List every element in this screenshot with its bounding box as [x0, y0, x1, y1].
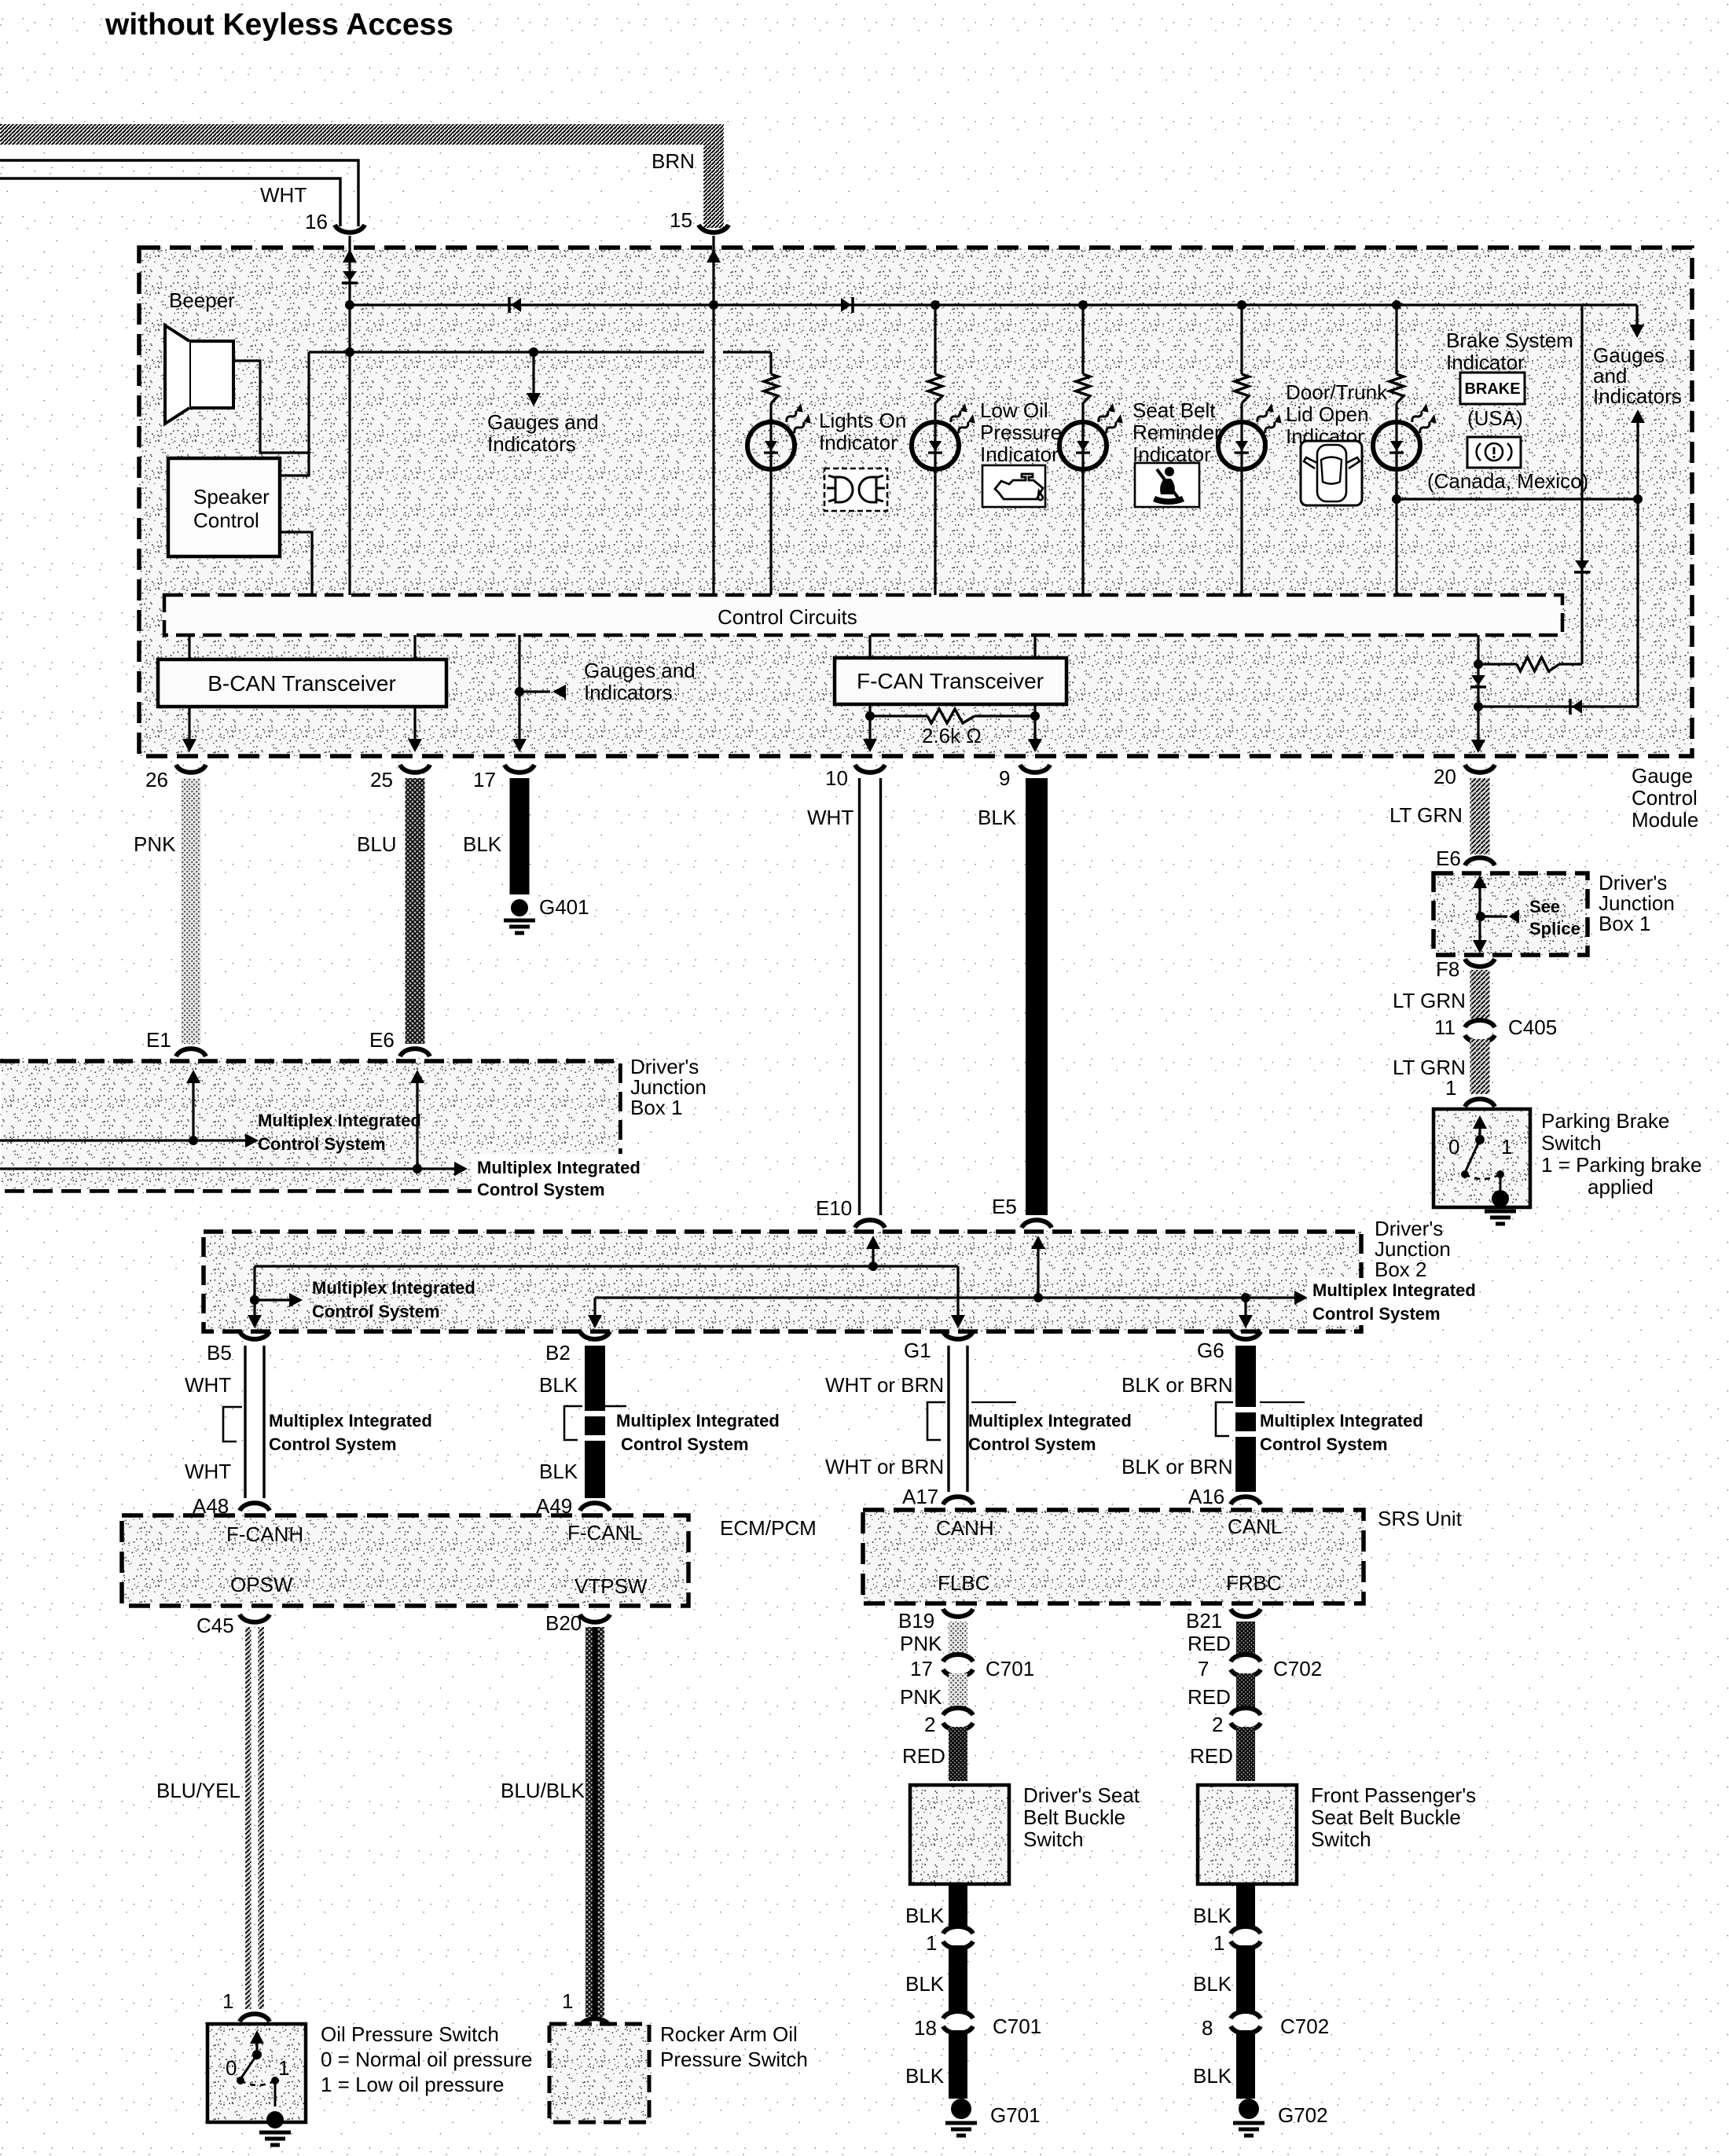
connector rocker arm switch pin 1	[580, 2018, 610, 2026]
junction E1/multiplex1	[189, 1136, 198, 1145]
wire B-CAN out pin 26	[188, 707, 190, 740]
multiplex tap G1	[927, 1402, 945, 1440]
arrow to Gauges and Indicators label	[519, 690, 550, 692]
svg-text:E6: E6	[1436, 847, 1461, 870]
wire PNK B19 to C701	[949, 1622, 967, 1654]
svg-text:BLK: BLK	[905, 1972, 945, 1996]
svg-text:Switch: Switch	[1311, 1827, 1371, 1851]
junction bus1 Low Oil	[931, 300, 940, 310]
connector C702 lower	[1231, 2011, 1261, 2018]
svg-text:BLK: BLK	[905, 1904, 945, 1927]
svg-text:See: See	[1529, 897, 1560, 916]
bus wire 2 (lights-on feed), breaks over BRN wire	[309, 351, 704, 353]
wire BLK or BRN G6 to A16	[1235, 1346, 1256, 1492]
LED Door/Trunk indicator	[1218, 422, 1265, 469]
svg-text:C701: C701	[993, 2015, 1041, 2038]
svg-text:BLK: BLK	[978, 806, 1017, 829]
connector E6 right	[1465, 858, 1495, 865]
svg-text:BLU: BLU	[357, 832, 397, 856]
svg-text:Indicators: Indicators	[487, 432, 576, 456]
switch lever parking brake	[1478, 1126, 1481, 1138]
svg-text:Box 2: Box 2	[1375, 1258, 1427, 1281]
LED Brake indicator	[1373, 422, 1420, 469]
svg-text:applied: applied	[1588, 1175, 1654, 1199]
wire BLK buckle to pin 1	[1236, 1884, 1255, 1926]
svg-text:BLK: BLK	[463, 832, 502, 856]
svg-text:Gauge: Gauge	[1632, 764, 1693, 788]
svg-text:26: 26	[145, 768, 168, 792]
svg-text:18: 18	[914, 2016, 937, 2040]
wire F-CAN stub right	[1033, 635, 1036, 658]
svg-text:1: 1	[926, 1931, 937, 1955]
svg-text:Multiplex Integrated: Multiplex Integrated	[616, 1411, 780, 1431]
svg-text:Pressure: Pressure	[980, 421, 1062, 444]
wire BLK pin9 to E5	[1026, 778, 1048, 1215]
svg-text:Reminder: Reminder	[1132, 421, 1221, 444]
svg-text:Pressure Switch: Pressure Switch	[660, 2048, 808, 2071]
svg-text:2: 2	[1212, 1713, 1223, 1736]
connector pin 1	[1231, 1926, 1261, 1934]
svg-text:Beeper: Beeper	[169, 288, 235, 312]
svg-text:Control System: Control System	[621, 1434, 749, 1454]
beeper speaker icon	[189, 341, 233, 408]
svg-text:A17: A17	[902, 1485, 938, 1508]
wire F-CAN stub left	[868, 635, 871, 658]
ground G401	[511, 899, 528, 916]
wire Low Oil indicator branch	[934, 305, 936, 374]
svg-text:Gauges and: Gauges and	[584, 659, 696, 682]
wire BLK buckle to pin 1	[949, 1884, 967, 1926]
junction pin16/bus1	[345, 300, 354, 310]
svg-text:Low Oil: Low Oil	[980, 399, 1048, 422]
wire B-CAN out pin 25	[413, 707, 416, 740]
connector pin 10	[855, 765, 885, 773]
svg-text:LT GRN: LT GRN	[1389, 803, 1463, 827]
LED Seat Belt indicator	[1059, 422, 1107, 469]
connector C405	[1465, 1020, 1495, 1027]
wire B-CAN stub left	[188, 635, 190, 659]
F-CAN Transceiver box	[835, 658, 1066, 704]
svg-text:(Canada, Mexico): (Canada, Mexico)	[1427, 469, 1588, 493]
ground G702	[1239, 2099, 1259, 2119]
svg-text:Multiplex Integrated: Multiplex Integrated	[258, 1111, 421, 1130]
connector E5	[1022, 1220, 1052, 1228]
junction E5/djb2bus2	[1033, 1293, 1043, 1302]
svg-text:Multiplex Integrated: Multiplex Integrated	[1260, 1411, 1423, 1431]
G702 seat belt buckle switch box	[1198, 1785, 1297, 1884]
junction E6/multiplex2	[413, 1164, 422, 1173]
wire BLK pin1 to C701	[949, 1945, 967, 2011]
svg-text:WHT: WHT	[260, 183, 307, 207]
connector pin 25	[400, 765, 430, 773]
connector B21	[1231, 1609, 1261, 1617]
wire node to Speaker Control input	[280, 352, 309, 476]
connector pin 16	[335, 225, 365, 233]
junction B5/multiplex arrow	[250, 1295, 259, 1305]
wire RED C702 to pin 2	[1236, 1673, 1255, 1707]
resistor horizontal (pin 20 circuit)	[1478, 663, 1517, 665]
connector B2	[580, 1331, 610, 1339]
svg-text:ECM/PCM: ECM/PCM	[720, 1516, 817, 1540]
wire BLK to G701	[949, 2030, 967, 2099]
ground G701	[951, 2099, 971, 2119]
wire bus1 tap down to resistor	[1580, 305, 1583, 664]
connector C702 upper	[1231, 1655, 1261, 1662]
wire E10 arrow into box	[872, 1243, 874, 1266]
svg-text:1: 1	[1213, 1931, 1224, 1955]
svg-text:Gauges and: Gauges and	[487, 410, 599, 434]
switch pivot oil pressure	[252, 2050, 262, 2059]
svg-text:Module: Module	[1632, 808, 1698, 832]
car top-view icon box	[1301, 441, 1362, 505]
connector E6 left	[400, 1049, 430, 1056]
svg-text:B21: B21	[1186, 1609, 1222, 1633]
svg-text:Switch: Switch	[1023, 1827, 1084, 1851]
wire pin20 internal vertical	[1477, 635, 1479, 741]
Gauge Control Module dashed box	[139, 248, 1692, 756]
resistor Low Oil branch	[928, 374, 942, 403]
resistor Lights On branch	[764, 374, 778, 403]
diode pin20 vertical	[1471, 675, 1485, 685]
svg-text:17: 17	[910, 1657, 933, 1680]
svg-text:1: 1	[562, 1989, 573, 2013]
connector parking brake pin 1	[1465, 1099, 1495, 1107]
svg-text:Splice: Splice	[1529, 919, 1580, 938]
svg-text:2: 2	[924, 1713, 935, 1736]
SRS Unit dashed box	[863, 1510, 1364, 1603]
svg-text:17: 17	[473, 768, 496, 792]
svg-text:G6: G6	[1197, 1339, 1224, 1362]
junction bus1 Brake	[1392, 300, 1401, 310]
connector pin 9	[1020, 765, 1050, 773]
connector F8	[1465, 959, 1495, 967]
svg-text:16: 16	[305, 210, 328, 233]
wire Speaker Control output down to Control Circuits	[280, 532, 312, 595]
wire lower horizontal with diode	[1478, 705, 1638, 707]
svg-text:BLK: BLK	[1193, 1972, 1232, 1996]
resistor Door/Trunk branch	[1235, 374, 1249, 403]
wire PNK pin26 to E1	[182, 778, 201, 1044]
wire pin 16 vertical into Control Circuits	[348, 236, 351, 595]
wire right vertical down	[1636, 499, 1639, 707]
connector B5	[240, 1331, 270, 1339]
splice arrow	[1481, 915, 1507, 917]
Rocker Arm Oil Pressure Switch dashed box	[549, 2024, 649, 2122]
svg-text:1: 1	[278, 2056, 289, 2080]
wire WHT hollow entering from left, turns down to pin 16	[0, 160, 358, 226]
svg-text:Belt Buckle: Belt Buckle	[1023, 1805, 1125, 1829]
connector pin 2	[1231, 1708, 1261, 1715]
Driver's Junction Box 1 (right) dashed box	[1433, 873, 1588, 955]
bus wire 1 (indicator feed)	[350, 303, 1637, 306]
svg-text:Multiplex Integrated: Multiplex Integrated	[477, 1158, 641, 1177]
svg-text:WHT: WHT	[185, 1460, 231, 1483]
svg-text:Lid Open: Lid Open	[1286, 402, 1369, 426]
svg-text:Seat Belt Buckle: Seat Belt Buckle	[1311, 1805, 1461, 1829]
seat belt icon box	[1135, 463, 1199, 507]
svg-text:C701: C701	[986, 1657, 1034, 1680]
wire F-CAN out pin 9	[1033, 704, 1036, 740]
wire brake node horizontal	[1397, 498, 1638, 500]
svg-text:Door/Trunk: Door/Trunk	[1286, 380, 1388, 404]
svg-text:8: 8	[1202, 2016, 1213, 2040]
svg-text:Brake System: Brake System	[1446, 329, 1573, 352]
svg-text:Seat Belt: Seat Belt	[1132, 399, 1216, 422]
svg-text:SRS Unit: SRS Unit	[1378, 1507, 1463, 1530]
connector oil pressure switch pin 1	[240, 2014, 270, 2022]
wire djb2 bus 1	[255, 1266, 958, 1320]
wire RED to buckle switch	[1236, 1727, 1255, 1781]
junction lower horizontal	[1474, 702, 1483, 711]
connector A49	[580, 1503, 610, 1511]
svg-text:1 = Low oil pressure: 1 = Low oil pressure	[321, 2073, 504, 2096]
svg-text:PNK: PNK	[900, 1632, 942, 1655]
svg-text:Indicators: Indicators	[1593, 384, 1682, 408]
connector G6	[1231, 1331, 1261, 1339]
svg-text:Control: Control	[193, 509, 259, 532]
svg-text:BLK: BLK	[539, 1460, 578, 1483]
svg-text:11: 11	[1434, 1016, 1456, 1039]
connector pin 20	[1465, 765, 1495, 773]
svg-text:WHT or BRN: WHT or BRN	[825, 1455, 944, 1478]
svg-text:F8: F8	[1436, 957, 1459, 981]
wire multiplex 1 horizontal	[0, 1139, 252, 1141]
wire beeper to node	[233, 361, 309, 453]
wire E5 arrow into box	[1037, 1243, 1039, 1298]
wire BLK B2 to A49	[585, 1346, 605, 1498]
wire pin 15 (BRN) vertical into Control Circuits	[712, 236, 714, 595]
svg-text:B-CAN Transceiver: B-CAN Transceiver	[207, 671, 396, 696]
connector C701 lower	[943, 2011, 973, 2018]
svg-text:Control System: Control System	[1312, 1304, 1441, 1324]
svg-text:25: 25	[370, 768, 393, 792]
junction resistor node	[1474, 659, 1483, 669]
svg-text:BRAKE: BRAKE	[1464, 380, 1520, 398]
wire WHT B5 to A48	[245, 1346, 264, 1498]
svg-text:10: 10	[825, 766, 848, 790]
svg-text:G701: G701	[990, 2103, 1041, 2127]
svg-text:B5: B5	[207, 1341, 232, 1364]
junction right vertical	[1633, 494, 1643, 504]
wire Brake indicator branch	[1395, 305, 1397, 374]
svg-text:BLK or BRN: BLK or BRN	[1121, 1373, 1233, 1397]
wire BLK pin1 to C702	[1236, 1945, 1255, 2011]
svg-text:Parking Brake: Parking Brake	[1541, 1109, 1669, 1133]
wire WHT pin10 to E10	[860, 778, 881, 1215]
svg-text:WHT or BRN: WHT or BRN	[825, 1373, 944, 1397]
svg-text:LT GRN: LT GRN	[1393, 989, 1466, 1012]
wire Lights On indicator branch	[769, 352, 772, 374]
connector pin 2	[943, 1708, 973, 1715]
svg-text:Driver's Seat: Driver's Seat	[1023, 1783, 1140, 1807]
wire gauges tap (pin 17)	[518, 635, 520, 740]
svg-text:0: 0	[1448, 1135, 1459, 1159]
svg-text:WHT: WHT	[807, 806, 853, 829]
wire Seat Belt indicator branch	[1081, 305, 1084, 374]
svg-text:Multiplex Integrated: Multiplex Integrated	[1312, 1280, 1476, 1300]
wire inside DJB1 right	[1478, 888, 1481, 940]
svg-text:PNK: PNK	[900, 1685, 942, 1709]
wire WHT or BRN G1 to A17	[949, 1346, 967, 1492]
svg-text:Indicator: Indicator	[980, 443, 1059, 466]
svg-text:(USA): (USA)	[1467, 406, 1523, 430]
svg-text:BLK: BLK	[1193, 1904, 1232, 1927]
connector E10	[855, 1220, 885, 1228]
multiplex tap B5	[223, 1407, 242, 1442]
junction see splice	[1476, 912, 1485, 921]
junction brake/horizontal	[1392, 494, 1401, 504]
connector B20	[580, 1614, 610, 1622]
svg-text:RED: RED	[1190, 1744, 1233, 1768]
svg-text:Multiplex Integrated: Multiplex Integrated	[312, 1278, 475, 1298]
svg-text:C405: C405	[1508, 1016, 1557, 1039]
svg-text:2.6k Ω: 2.6k Ω	[922, 724, 982, 747]
wire BRN feed (thick hatched) entering from left, turns down to pin 15	[0, 134, 714, 228]
svg-text:CANL: CANL	[1228, 1515, 1282, 1538]
junction 2.6k left	[865, 711, 875, 721]
diode on bus1 tap	[1575, 560, 1589, 571]
wire LT GRN F8 to C405	[1470, 970, 1490, 1019]
resistor 2.6k between pins 10 and 9	[870, 714, 927, 717]
connector E1	[176, 1049, 206, 1056]
ground oil pressure switch	[266, 2111, 284, 2128]
svg-text:20: 20	[1433, 765, 1456, 788]
svg-text:G1: G1	[904, 1339, 931, 1362]
junction bus1 Seat Belt	[1078, 300, 1088, 310]
svg-text:Control System: Control System	[968, 1434, 1096, 1454]
connector B19	[943, 1609, 973, 1617]
wire BLK pin17 to G401	[510, 778, 530, 894]
svg-text:Switch: Switch	[1541, 1131, 1602, 1155]
svg-text:Control System: Control System	[269, 1434, 397, 1454]
svg-text:E5: E5	[992, 1195, 1017, 1218]
svg-text:OPSW: OPSW	[230, 1573, 293, 1596]
svg-text:RED: RED	[1188, 1632, 1231, 1655]
svg-text:Multiplex Integrated: Multiplex Integrated	[968, 1411, 1132, 1431]
wire F-CAN out pin 10	[868, 704, 871, 740]
wire RED B21 to C702	[1236, 1622, 1255, 1654]
connector A16	[1231, 1497, 1261, 1504]
diode below pin 16	[343, 271, 357, 281]
connector pin 26	[176, 765, 206, 773]
svg-text:E10: E10	[816, 1196, 852, 1220]
svg-text:Oil Pressure Switch: Oil Pressure Switch	[321, 2022, 499, 2046]
LED Lights On indicator	[747, 422, 795, 469]
wire LT GRN pin20 to E6	[1470, 778, 1490, 854]
Driver's Junction Box 1 (left) dashed box	[0, 1061, 620, 1191]
svg-text:0 = Normal oil pressure: 0 = Normal oil pressure	[321, 2048, 533, 2071]
svg-text:7: 7	[1198, 1657, 1209, 1680]
connector A17	[943, 1497, 973, 1504]
wire B-CAN stub right	[413, 635, 416, 659]
svg-text:Rocker Arm Oil: Rocker Arm Oil	[660, 2022, 798, 2046]
ECM/PCM dashed box	[122, 1515, 688, 1606]
switch lever oil pressure	[255, 2040, 258, 2053]
brake circle icon box (Canada, Mexico)	[1467, 437, 1521, 468]
resistor Seat Belt branch	[1076, 374, 1090, 403]
wire djb2 bus 2	[595, 1298, 1301, 1320]
junction pin15/bus1	[709, 300, 718, 310]
Parking Brake Switch box	[1433, 1109, 1530, 1207]
connector A48	[240, 1503, 270, 1511]
wire BLU pin25 to E6	[406, 778, 425, 1044]
wire E1 arrow up	[192, 1083, 194, 1140]
junction E10/djb2bus1	[868, 1262, 878, 1271]
Speaker Control box	[168, 458, 280, 556]
svg-text:Box 1: Box 1	[1599, 912, 1651, 935]
svg-text:F-CANL: F-CANL	[567, 1521, 641, 1544]
svg-text:Indicators: Indicators	[584, 681, 673, 704]
junction bus2 tap	[529, 347, 538, 357]
multiplex tap G6	[1216, 1402, 1233, 1436]
svg-text:VTPSW: VTPSW	[574, 1574, 648, 1598]
wire PNK C701 to pin 2	[949, 1673, 967, 1707]
Oil Pressure Switch box	[207, 2024, 306, 2122]
B-CAN Transceiver box	[158, 659, 446, 707]
Control Circuits dashed box	[164, 595, 1562, 635]
svg-text:FLBC: FLBC	[938, 1571, 989, 1595]
svg-text:BLU/YEL: BLU/YEL	[156, 1779, 240, 1802]
svg-text:F-CANH: F-CANH	[226, 1522, 303, 1546]
bus1 corner down to Gauges and Indicators	[1635, 305, 1638, 327]
svg-text:F-CAN Transceiver: F-CAN Transceiver	[857, 669, 1044, 693]
wire multiplex 2 horizontal	[0, 1167, 461, 1170]
connector C701 upper	[943, 1655, 973, 1662]
connector G1	[943, 1331, 973, 1339]
connector pin 1	[943, 1926, 973, 1934]
svg-text:A16: A16	[1188, 1485, 1224, 1508]
ground parking brake switch	[1492, 1190, 1509, 1207]
junction gauges tap	[515, 687, 524, 696]
wire LT GRN C405 to parking brake switch	[1470, 1039, 1490, 1094]
diode on bus1 conducting right	[841, 298, 851, 312]
svg-text:BLK: BLK	[1193, 2064, 1232, 2088]
connector C45	[240, 1614, 270, 1622]
svg-text:without Keyless Access: without Keyless Access	[105, 8, 453, 42]
svg-text:PNK: PNK	[134, 832, 176, 856]
svg-text:C702: C702	[1280, 2015, 1329, 2038]
svg-text:C702: C702	[1273, 1657, 1322, 1680]
diode on bus1 conducting left	[508, 297, 511, 313]
svg-text:Control System: Control System	[477, 1180, 605, 1199]
svg-text:WHT: WHT	[185, 1373, 231, 1397]
svg-text:1: 1	[1445, 1076, 1456, 1100]
svg-text:1: 1	[1501, 1135, 1512, 1159]
svg-text:G401: G401	[539, 895, 589, 919]
svg-text:Speaker: Speaker	[193, 485, 270, 509]
svg-text:Multiplex Integrated: Multiplex Integrated	[269, 1411, 432, 1431]
arrow multiplex djb2 left	[255, 1298, 296, 1301]
svg-text:Indicator: Indicator	[1446, 351, 1525, 374]
svg-text:Control System: Control System	[1260, 1434, 1388, 1454]
svg-text:C45: C45	[196, 1614, 234, 1637]
svg-text:BLK: BLK	[905, 2064, 945, 2088]
wire from Gauges and Indicators down	[1631, 410, 1645, 423]
svg-text:RED: RED	[902, 1744, 945, 1768]
svg-text:Control System: Control System	[312, 1302, 440, 1321]
svg-text:B2: B2	[545, 1341, 571, 1364]
connector pin 15	[699, 225, 729, 233]
svg-text:1: 1	[222, 1989, 233, 2013]
resistor Brake branch	[1389, 374, 1404, 403]
wire BLU/BLK B20 to rocker arm switch	[586, 1627, 604, 2017]
svg-text:G702: G702	[1278, 2103, 1328, 2127]
svg-text:FRBC: FRBC	[1226, 1571, 1282, 1595]
wire Door/Trunk indicator branch	[1240, 305, 1243, 374]
junction G6/djb2bus2	[1241, 1293, 1250, 1302]
svg-text:15: 15	[670, 208, 692, 232]
svg-text:Control Circuits: Control Circuits	[718, 605, 857, 629]
